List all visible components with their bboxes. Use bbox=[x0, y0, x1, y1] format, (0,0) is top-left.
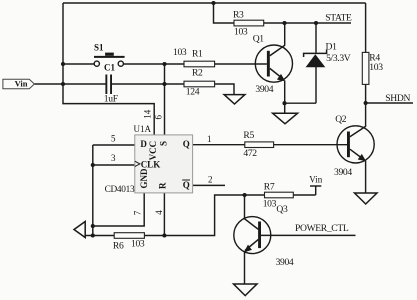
svg-text:6: 6 bbox=[153, 114, 163, 119]
svg-text:S: S bbox=[159, 141, 169, 146]
svg-text:1: 1 bbox=[207, 134, 212, 144]
svg-text:VCC: VCC bbox=[148, 141, 158, 161]
svg-text:124: 124 bbox=[186, 87, 200, 98]
svg-text:R3: R3 bbox=[233, 9, 244, 20]
svg-text:R1: R1 bbox=[192, 48, 203, 59]
svg-text:R7: R7 bbox=[264, 182, 275, 193]
svg-text:STATE: STATE bbox=[325, 12, 352, 23]
svg-text:D1: D1 bbox=[326, 41, 338, 52]
svg-text:Q2: Q2 bbox=[335, 114, 347, 125]
svg-text:5: 5 bbox=[111, 134, 116, 144]
svg-text:C1: C1 bbox=[104, 63, 115, 73]
svg-text:2: 2 bbox=[208, 175, 213, 185]
svg-text:Vin: Vin bbox=[15, 78, 28, 88]
svg-text:472: 472 bbox=[243, 148, 257, 159]
svg-text:R6: R6 bbox=[113, 241, 124, 252]
svg-text:103: 103 bbox=[173, 47, 187, 58]
svg-text:4: 4 bbox=[154, 210, 164, 215]
svg-text:7: 7 bbox=[133, 210, 143, 215]
svg-text:POWER_CTL: POWER_CTL bbox=[295, 223, 349, 234]
svg-text:S1: S1 bbox=[94, 43, 104, 53]
svg-text:Q1: Q1 bbox=[253, 34, 265, 45]
svg-text:103: 103 bbox=[234, 27, 248, 38]
svg-text:U1A: U1A bbox=[134, 124, 152, 134]
svg-text:Q3: Q3 bbox=[276, 204, 288, 215]
svg-text:3: 3 bbox=[111, 153, 116, 163]
svg-text:103: 103 bbox=[369, 62, 383, 73]
svg-text:14: 14 bbox=[142, 109, 152, 119]
svg-text:R: R bbox=[158, 182, 168, 189]
svg-text:Q: Q bbox=[183, 139, 190, 149]
svg-text:D: D bbox=[140, 139, 147, 149]
svg-text:SHDN: SHDN bbox=[385, 93, 410, 104]
svg-text:1uF: 1uF bbox=[104, 93, 118, 104]
svg-text:R5: R5 bbox=[243, 130, 254, 141]
svg-text:CD4013: CD4013 bbox=[105, 185, 135, 195]
svg-text:R2: R2 bbox=[192, 68, 203, 79]
svg-text:3904: 3904 bbox=[276, 257, 294, 268]
svg-text:3904: 3904 bbox=[255, 84, 273, 95]
svg-text:Q: Q bbox=[183, 180, 190, 190]
svg-text:GND: GND bbox=[139, 168, 149, 189]
svg-text:Vin: Vin bbox=[309, 175, 322, 185]
svg-text:5/3.3V: 5/3.3V bbox=[326, 53, 351, 64]
svg-text:103: 103 bbox=[131, 239, 145, 250]
svg-text:3904: 3904 bbox=[334, 167, 352, 178]
svg-text:103: 103 bbox=[263, 199, 277, 210]
